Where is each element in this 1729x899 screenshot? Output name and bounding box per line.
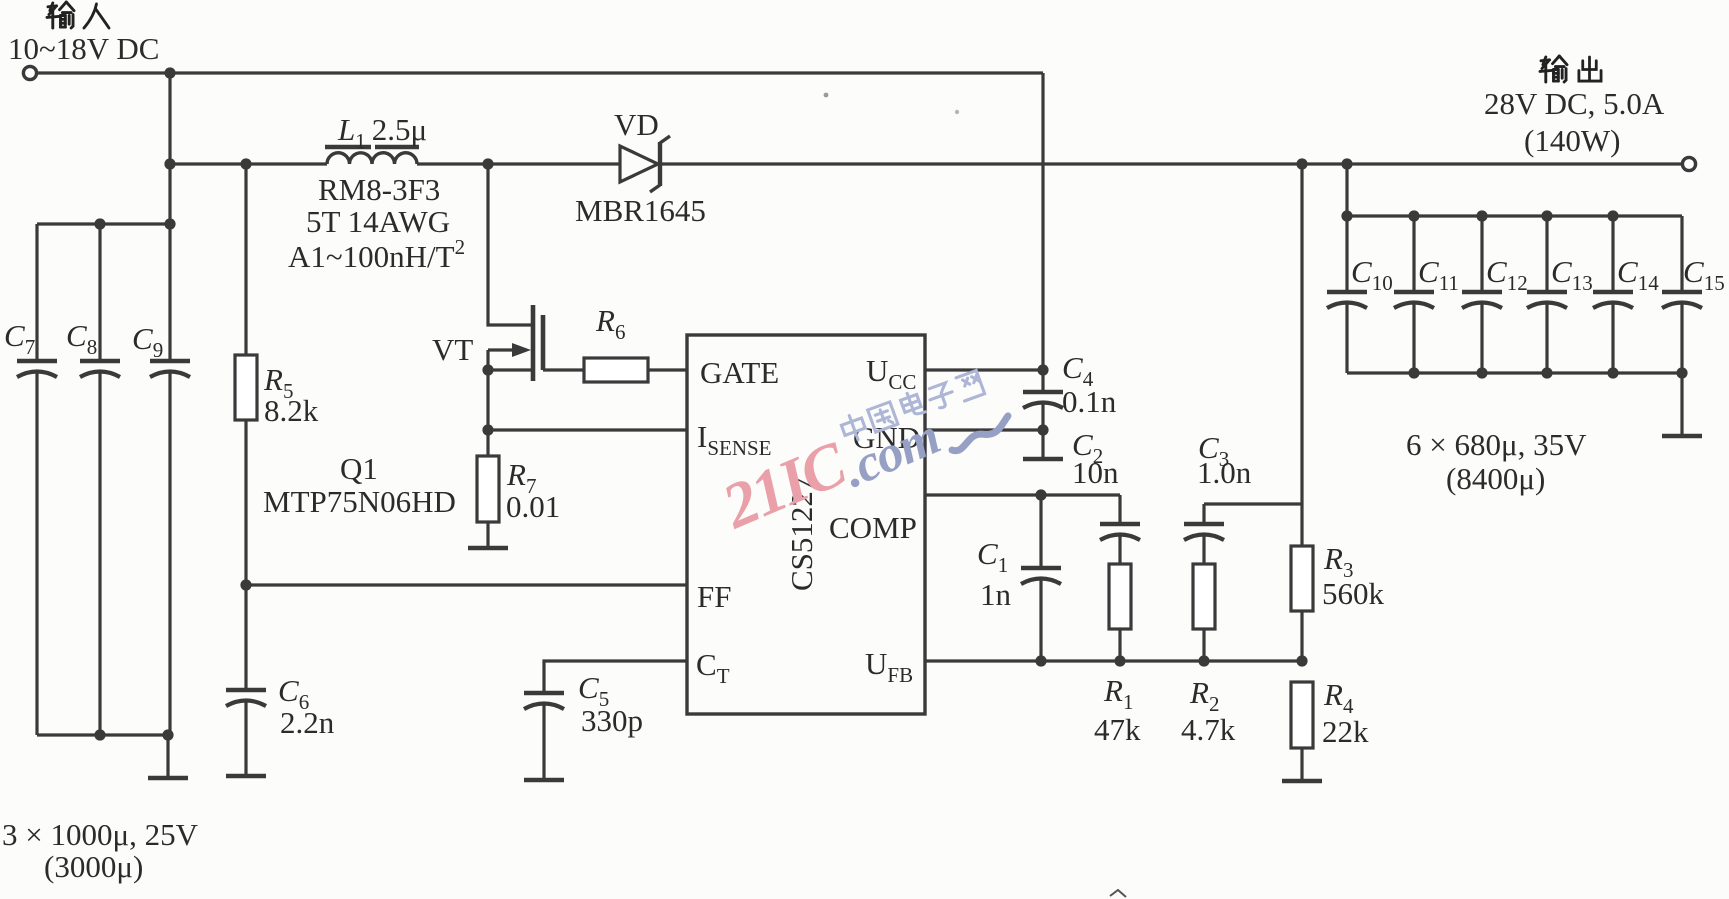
node top bus x1482 [1476,210,1487,221]
wire UCC supply vertical [1041,73,1044,392]
node top bus x1547 [1541,210,1552,221]
wire cap bank top bus [1347,214,1682,217]
svg-text:A1~100nH/T2: A1~100nH/T2 [288,235,465,274]
node C1 bottom junction [1035,655,1046,666]
wire R7 ground lead [486,522,489,548]
wire rail VD to output [660,162,1682,165]
svg-text:28V DC, 5.0A: 28V DC, 5.0A [1484,86,1665,121]
wire R5 to C6 lead [244,420,247,690]
wire top rail (input +) [37,71,1043,74]
wire FF wire [246,583,687,586]
node C9 top junction [164,218,175,229]
wire C15 top lead [1680,216,1683,292]
node R2 bottom junction [1198,655,1209,666]
node top bus x1414 [1408,210,1419,221]
svg-text:MBR1645: MBR1645 [575,193,706,228]
wire COMP wire [925,493,1120,496]
capacitor C14 [1593,292,1633,308]
wire Isense wire [488,428,687,431]
wire input vertical / C9 top lead [168,73,171,361]
node UCC junction [1037,364,1048,375]
node VT drain tap junction [482,158,493,169]
wire R4 ground lead [1300,748,1303,781]
output terminal [1682,157,1695,170]
capacitor C4 [1023,392,1063,408]
node bottom bus x1613 [1607,367,1618,378]
node rail y164 left junction [164,158,175,169]
resistor R3 [1291,546,1313,611]
wire C1 top lead [1039,495,1042,568]
artifact [1110,890,1126,897]
node R3-R4 junction [1296,655,1307,666]
ground C5 ground [524,778,564,783]
capacitor C9 [150,361,190,377]
svg-text:VD: VD [614,107,659,142]
wire C7 top lead [35,224,38,361]
speck [824,93,829,98]
wire C7 bottom lead [35,371,38,735]
svg-text:6 × 680μ, 35V: 6 × 680μ, 35V [1406,427,1587,462]
wire C14 top lead [1611,216,1614,292]
svg-text:8.2k: 8.2k [264,393,319,428]
wire C12 top lead [1480,216,1483,292]
node cap bank junction [1341,158,1352,169]
wire C4 bottom lead [1041,402,1044,459]
svg-text:(8400μ): (8400μ) [1446,461,1545,496]
node FF junction [240,579,251,590]
node R1 bottom junction [1114,655,1125,666]
capacitor C5 [524,693,564,709]
wire cap bank ground stub [1680,373,1683,436]
label input header 输入 [47,2,74,28]
resistor R7 [477,456,499,522]
wire C12 bottom lead [1480,302,1483,373]
watermark m swash [947,416,1013,452]
svg-text:0.01: 0.01 [506,489,560,524]
wire ground stub left [166,735,169,778]
op-amp U1 CS51227 controller box [687,335,925,714]
input terminal [23,66,36,79]
capacitor C12 [1462,292,1502,308]
inductor L1 [327,153,417,164]
wire R5 top lead [244,164,247,355]
node bottom bus x1482 [1476,367,1487,378]
wire UFB wire [925,659,1302,662]
svg-text:RM8-3F3: RM8-3F3 [318,172,440,207]
svg-text:Q1: Q1 [340,451,378,486]
node COMP junction [1035,489,1046,500]
svg-text:3 × 1000μ, 25V: 3 × 1000μ, 25V [2,817,199,852]
resistor R1 [1109,564,1131,629]
wire R3 bottom lead [1300,611,1303,661]
wire C2-R1 link [1118,534,1121,564]
svg-text:VT: VT [432,332,473,367]
capacitor C1 [1021,568,1061,584]
wire VT source lead [486,350,489,456]
wire C8 top lead [98,224,101,361]
svg-text:47k: 47k [1094,712,1141,747]
wire R2 bottom lead [1202,629,1205,661]
wire GND wire [925,428,1043,431]
capacitor C10 [1327,292,1367,308]
wire R6 to GATE wire [648,368,687,371]
wire C14 bottom lead [1611,302,1614,373]
node GND junction [1037,424,1048,435]
node bottom bus x1414 [1408,367,1419,378]
inductor L1 core bars [325,145,419,149]
wire C13 bottom lead [1545,302,1548,373]
ground C6 ground [226,774,266,779]
svg-text:MTP75N06HD: MTP75N06HD [263,484,456,519]
wire cap bank feeder [1345,164,1348,216]
wire rail to L1 [170,162,327,165]
wire CT wire [544,661,687,693]
node bottom bus x1547 [1541,367,1552,378]
svg-text:5T 14AWG: 5T 14AWG [306,204,450,239]
wire C13 top lead [1545,216,1548,292]
wire output divider vertical [1300,164,1303,546]
wire VT gate lead [543,368,584,371]
wire C1 bottom lead [1039,578,1042,661]
svg-text:10~18V DC: 10~18V DC [8,31,159,66]
node Isense junction [482,424,493,435]
node source junction [482,364,493,375]
svg-text:560k: 560k [1322,576,1385,611]
wire C10 bottom lead [1345,302,1348,373]
svg-text:1n: 1n [980,577,1012,612]
svg-text:(3000μ): (3000μ) [44,849,143,884]
wire C2 top lead [1118,495,1121,524]
node R3 branch junction [1296,158,1307,169]
wire C3 top wire [1204,502,1302,505]
wire cap bank bottom bus [1347,371,1682,374]
wire VT drain lead [488,164,533,325]
wire C7-C9 top bus [37,222,170,225]
node top bus x1347 [1341,210,1352,221]
capacitor C2 [1100,524,1140,540]
svg-text:COMP: COMP [829,510,917,545]
capacitor C13 [1527,292,1567,308]
resistor R6 [584,358,648,382]
svg-text:4.7k: 4.7k [1181,712,1236,747]
wire C3-R2 link [1202,534,1205,564]
wire C9 bottom lead [168,373,171,735]
svg-text:L12.5μ: L12.5μ [337,112,427,153]
ground left bank ground [148,776,188,781]
wire UCC wire [925,368,1043,371]
resistor R2 [1193,564,1215,629]
svg-text:10n: 10n [1072,455,1119,490]
capacitor C6 [226,690,266,706]
diode VD MBR1645 [620,136,670,192]
wire C6 bottom lead [244,700,247,776]
node C8 bottom junction [94,729,105,740]
svg-text:(140W): (140W) [1524,123,1620,158]
node bottom bus junction [162,729,173,740]
svg-text:0.1n: 0.1n [1062,384,1117,419]
capacitor C8 [80,361,120,377]
svg-text:1.0n: 1.0n [1197,455,1252,490]
ground R7 ground [468,546,508,551]
node A input junction [164,67,175,78]
wire R1 bottom lead [1118,629,1121,661]
label output header 输出 [1540,56,1567,82]
svg-text:330p: 330p [581,703,643,738]
node R5 tap junction [240,158,251,169]
wire C11 top lead [1412,216,1415,292]
wire C3 top lead [1202,504,1205,524]
resistor R4 [1291,682,1313,748]
watermark 21IC.com [712,390,948,548]
capacitor C3 [1184,524,1224,540]
capacitor C15 [1662,292,1702,308]
node top bus x1613 [1607,210,1618,221]
svg-text:GATE: GATE [700,355,779,390]
capacitor C7 [17,361,57,377]
wire rail L1 to VD [417,162,620,165]
capacitor C11 [1394,292,1434,308]
wire C5 bottom lead [542,703,545,780]
wire C15 bottom lead [1680,302,1683,373]
ground R4 ground [1282,779,1322,784]
wire C11 bottom lead [1412,302,1415,373]
watermark 中国电子网 [839,368,985,443]
svg-text:FF: FF [697,579,731,614]
svg-text:22k: 22k [1322,714,1369,749]
resistor R5 [235,355,257,420]
wire C10 top lead [1345,216,1348,292]
svg-text:2.2n: 2.2n [280,705,335,740]
node C8 top junction [94,218,105,229]
node bottom bus x1682 [1676,367,1687,378]
wire VT source bar [488,368,533,371]
ground cap bank ground [1662,434,1702,439]
wire C7-C9 bottom bus [37,733,170,736]
ground C4 ground [1023,457,1063,462]
wire C8 bottom lead [98,371,101,735]
